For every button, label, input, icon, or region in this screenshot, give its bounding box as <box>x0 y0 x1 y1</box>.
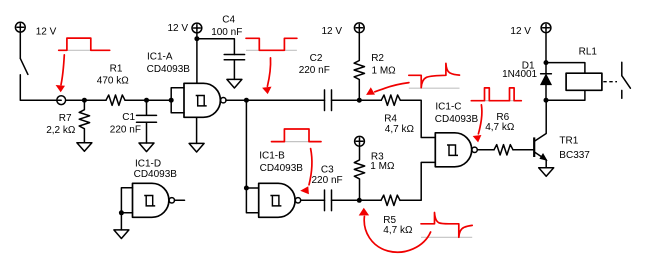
IC1-B output bubble <box>295 198 300 203</box>
resistor R6 <box>494 145 513 155</box>
svg-text:R4: R4 <box>384 114 397 125</box>
supply +12V S5 (relay) <box>541 23 551 33</box>
arrow A6 <box>359 208 431 253</box>
junction dot relay bottom <box>544 98 549 103</box>
wire IC1-A output to C2 <box>226 99 325 101</box>
arrow A3 <box>300 149 312 195</box>
wire stub into node A <box>57 99 62 101</box>
svg-text:CD4093B: CD4093B <box>147 64 191 75</box>
resistor R7 (vertical) <box>79 100 89 143</box>
svg-text:220 nF: 220 nF <box>110 124 141 135</box>
wire R5 to IC1-C lower input <box>400 162 435 200</box>
wire R6 to TR1 base <box>513 149 534 151</box>
svg-text:4,7 kΩ: 4,7 kΩ <box>385 124 415 135</box>
waveform A3 gray reference <box>272 141 322 143</box>
svg-text:IC1-A: IC1-A <box>147 51 173 62</box>
ground G5 under IC1-D <box>114 230 129 239</box>
svg-text:TR1: TR1 <box>559 136 578 147</box>
IC1-C output bubble <box>472 147 477 152</box>
TR1 emitter arrowhead <box>540 154 546 160</box>
resistor R4 <box>381 95 400 105</box>
waveform A5 gray reference <box>471 100 521 102</box>
relay RL1 coil wiring <box>546 63 585 101</box>
capacitor C2 <box>325 90 332 111</box>
waveform A2 gray reference <box>246 49 297 51</box>
supply +12V S3 (R2) <box>354 23 364 33</box>
wire to C4 <box>197 39 235 55</box>
svg-text:CD4093B: CD4093B <box>134 169 178 180</box>
relay actuation dashed link <box>603 81 617 83</box>
IC1-D hysteresis glyph <box>144 196 155 206</box>
wire R4 to IC1-C upper input <box>400 100 435 137</box>
IC1-D output stub <box>175 199 185 201</box>
ground G1 under R7 <box>77 143 92 152</box>
IC1-D input bracket <box>121 188 132 213</box>
junction dot relay top <box>544 60 549 65</box>
waveform A5 double pulse <box>471 88 521 101</box>
IC1-B input bracket <box>246 188 258 213</box>
capacitor C3 <box>325 190 332 211</box>
junction dot R7 top <box>82 98 87 103</box>
ground G4 under IC1-A <box>189 143 204 152</box>
svg-text:C1: C1 <box>122 112 135 123</box>
ground G7 under TR1 <box>539 168 554 177</box>
wire node A to R1 <box>66 99 106 101</box>
wire IC1-D input to ground <box>120 213 122 230</box>
svg-text:1N4001: 1N4001 <box>502 69 537 80</box>
waveform A6 gray reference <box>421 236 472 238</box>
relay contact <box>622 62 631 98</box>
diode D1 <box>541 63 552 101</box>
junction dot IC1-B input <box>244 186 249 191</box>
resistor R1 <box>106 95 125 105</box>
capacitor C4 <box>224 55 244 80</box>
wire gate A bottom to ground <box>196 117 198 143</box>
svg-text:4,7 kΩ: 4,7 kΩ <box>383 225 413 236</box>
gate IC1-D body <box>133 183 169 217</box>
svg-text:C3: C3 <box>321 164 334 175</box>
svg-text:1 MΩ: 1 MΩ <box>370 161 395 172</box>
wire down to IC1-B input <box>245 100 247 188</box>
junction dot C1 top <box>144 98 149 103</box>
IC1-A output bubble <box>221 98 226 103</box>
capacitor C1 <box>137 100 157 143</box>
arrow A2 <box>262 58 271 94</box>
TR1 emitter <box>534 152 546 168</box>
IC1-D output bubble <box>169 198 174 203</box>
junction dot S2/C4 <box>194 36 199 41</box>
wire switch to node A <box>20 75 56 100</box>
relay RL1 coil box <box>566 73 602 90</box>
svg-text:4,7 kΩ: 4,7 kΩ <box>485 122 515 133</box>
wire S2 down through gate top <box>196 33 198 84</box>
svg-text:RL1: RL1 <box>579 46 598 57</box>
svg-text:R1: R1 <box>110 64 123 75</box>
junction dot IC1-A output <box>244 98 249 103</box>
svg-text:IC1-C: IC1-C <box>435 102 461 113</box>
svg-text:1 MΩ: 1 MΩ <box>372 66 397 77</box>
svg-text:C2: C2 <box>310 53 323 64</box>
svg-text:470 kΩ: 470 kΩ <box>97 76 129 87</box>
switch SW1 blade <box>20 58 28 74</box>
resistor R5 <box>381 195 400 205</box>
svg-text:12 V: 12 V <box>322 26 343 37</box>
svg-text:12 V: 12 V <box>168 23 189 34</box>
IC1-A input bracket <box>171 88 184 113</box>
supply +12V S2 (above IC1-A) <box>192 23 202 33</box>
resistor R2 (vertical) <box>354 32 364 100</box>
junction dot node B <box>357 198 362 203</box>
wire IC1-B output to C3 <box>301 199 325 201</box>
svg-text:IC1-B: IC1-B <box>259 150 285 161</box>
svg-text:220 nF: 220 nF <box>312 175 343 186</box>
waveform A1 gray reference <box>59 49 110 51</box>
svg-text:CD4093B: CD4093B <box>435 114 479 125</box>
junction dot IC1-A input <box>169 98 174 103</box>
svg-text:C4: C4 <box>222 15 235 26</box>
svg-text:220 nF: 220 nF <box>299 65 330 76</box>
svg-text:12 V: 12 V <box>36 26 57 37</box>
waveform A4 gray reference <box>409 87 460 89</box>
resistor R3 (vertical) <box>354 146 364 201</box>
arrow A5 <box>473 105 482 142</box>
wire R1 to gate input <box>125 99 171 101</box>
junction dot IC1-D input <box>119 210 124 215</box>
arrow A4 <box>366 83 409 95</box>
junction dot node C <box>357 98 362 103</box>
gate IC1-C body <box>435 133 471 167</box>
ground G6 under C4 <box>227 79 242 88</box>
waveform A3 pulse <box>272 129 322 142</box>
svg-text:12 V: 12 V <box>510 26 531 37</box>
op-amp gate IC1-A body <box>184 83 220 117</box>
waveform A2 inverted pulse <box>246 38 297 50</box>
TR1 collector <box>534 100 546 141</box>
IC1-C hysteresis glyph <box>447 145 458 155</box>
wire IC1-C output to R6 <box>477 149 494 151</box>
wire 12V to switch <box>19 32 21 59</box>
node A open circle <box>57 96 66 105</box>
svg-text:CD4093B: CD4093B <box>260 163 304 174</box>
arrow A1 <box>56 55 65 92</box>
wire C2 to R4 <box>332 99 382 101</box>
svg-text:2,2 kΩ: 2,2 kΩ <box>46 125 76 136</box>
gate IC1-B body <box>259 183 295 217</box>
svg-text:100 nF: 100 nF <box>211 27 242 38</box>
svg-text:BC337: BC337 <box>559 150 590 161</box>
supply +12V S4 (R3) <box>355 136 365 146</box>
svg-text:R2: R2 <box>371 53 384 64</box>
IC1-A hysteresis glyph <box>196 96 207 106</box>
ground G2 under C1 <box>139 143 154 152</box>
waveform A1 input pulse <box>59 38 110 50</box>
svg-text:R7: R7 <box>59 113 72 124</box>
IC1-B hysteresis glyph <box>270 196 281 206</box>
waveform A4 differentiated <box>409 63 460 87</box>
wire C3 to R5 <box>332 199 382 201</box>
transistor TR1 base bar <box>533 137 535 157</box>
supply +12V S1 top-left <box>15 22 25 32</box>
wire S5 down <box>545 32 547 62</box>
waveform A6 differentiated <box>421 213 472 238</box>
